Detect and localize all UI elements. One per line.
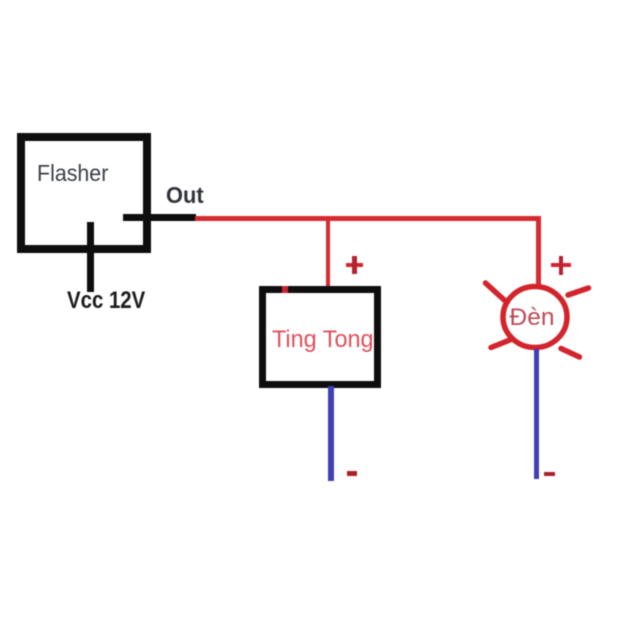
wire: red branch down to Ting Tong (326, 218, 331, 289)
lamp Den (circle with rays) (460, 260, 610, 370)
Ting Tong box (buzzer) (259, 286, 381, 389)
minus sign right (544, 472, 555, 476)
minus sign left (347, 471, 357, 475)
label Out (166, 184, 204, 208)
plus sign at lamp (551, 263, 571, 267)
wire: blue from lamp down (534, 349, 540, 479)
wire: red vertical down to lamp (536, 218, 541, 285)
plus sign at Ting Tong (346, 263, 364, 267)
wire: red horizontal from Out to right corner (195, 216, 541, 221)
pin Out (black stub) (123, 214, 196, 221)
label Vcc 12V (67, 289, 145, 313)
lamp bulb circle (503, 287, 567, 348)
red tick on Ting Tong top border (282, 286, 288, 293)
wire: blue from Ting Tong down (328, 386, 334, 481)
flasher box U1 (17, 133, 151, 253)
lamp ray upper-right (568, 288, 589, 295)
label Flasher (37, 162, 108, 185)
label Den (510, 306, 555, 331)
lamp ray lower-right (561, 349, 580, 358)
lamp ray lower-left (491, 340, 511, 348)
lamp ray upper-left (486, 283, 508, 303)
label Ting Tong (272, 328, 374, 352)
pin Vcc (black stub) (87, 222, 94, 292)
